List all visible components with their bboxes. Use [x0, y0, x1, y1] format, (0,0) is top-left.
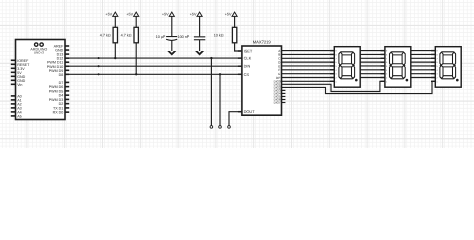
svg-text:A5: A5 [17, 114, 21, 118]
svg-text:Vin: Vin [17, 83, 22, 87]
svg-text:CLK: CLK [244, 56, 252, 61]
svg-text:10 µF: 10 µF [156, 35, 166, 39]
svg-text:D8: D8 [59, 73, 64, 77]
svg-text:DIN: DIN [244, 64, 251, 69]
svg-text:DOUT: DOUT [244, 109, 256, 114]
svg-text:4.7 kΩ: 4.7 kΩ [100, 34, 111, 38]
svg-text:UNO r3: UNO r3 [34, 51, 44, 55]
svg-text:CS: CS [244, 72, 250, 77]
svg-text:ISET: ISET [244, 48, 253, 53]
svg-text:MAX7219: MAX7219 [253, 39, 272, 44]
svg-text:DIG7: DIG7 [274, 101, 281, 105]
svg-text:+5V: +5V [190, 13, 197, 17]
svg-text:+5V: +5V [162, 13, 169, 17]
svg-text:10 kΩ: 10 kΩ [214, 34, 224, 38]
svg-text:+5V: +5V [126, 13, 133, 17]
svg-text:+5V: +5V [105, 13, 112, 17]
svg-text:RX D0: RX D0 [53, 111, 64, 115]
svg-text:4.7 kΩ: 4.7 kΩ [121, 34, 132, 38]
svg-text:100 nF: 100 nF [178, 35, 190, 39]
svg-text:+5V: +5V [225, 13, 232, 17]
